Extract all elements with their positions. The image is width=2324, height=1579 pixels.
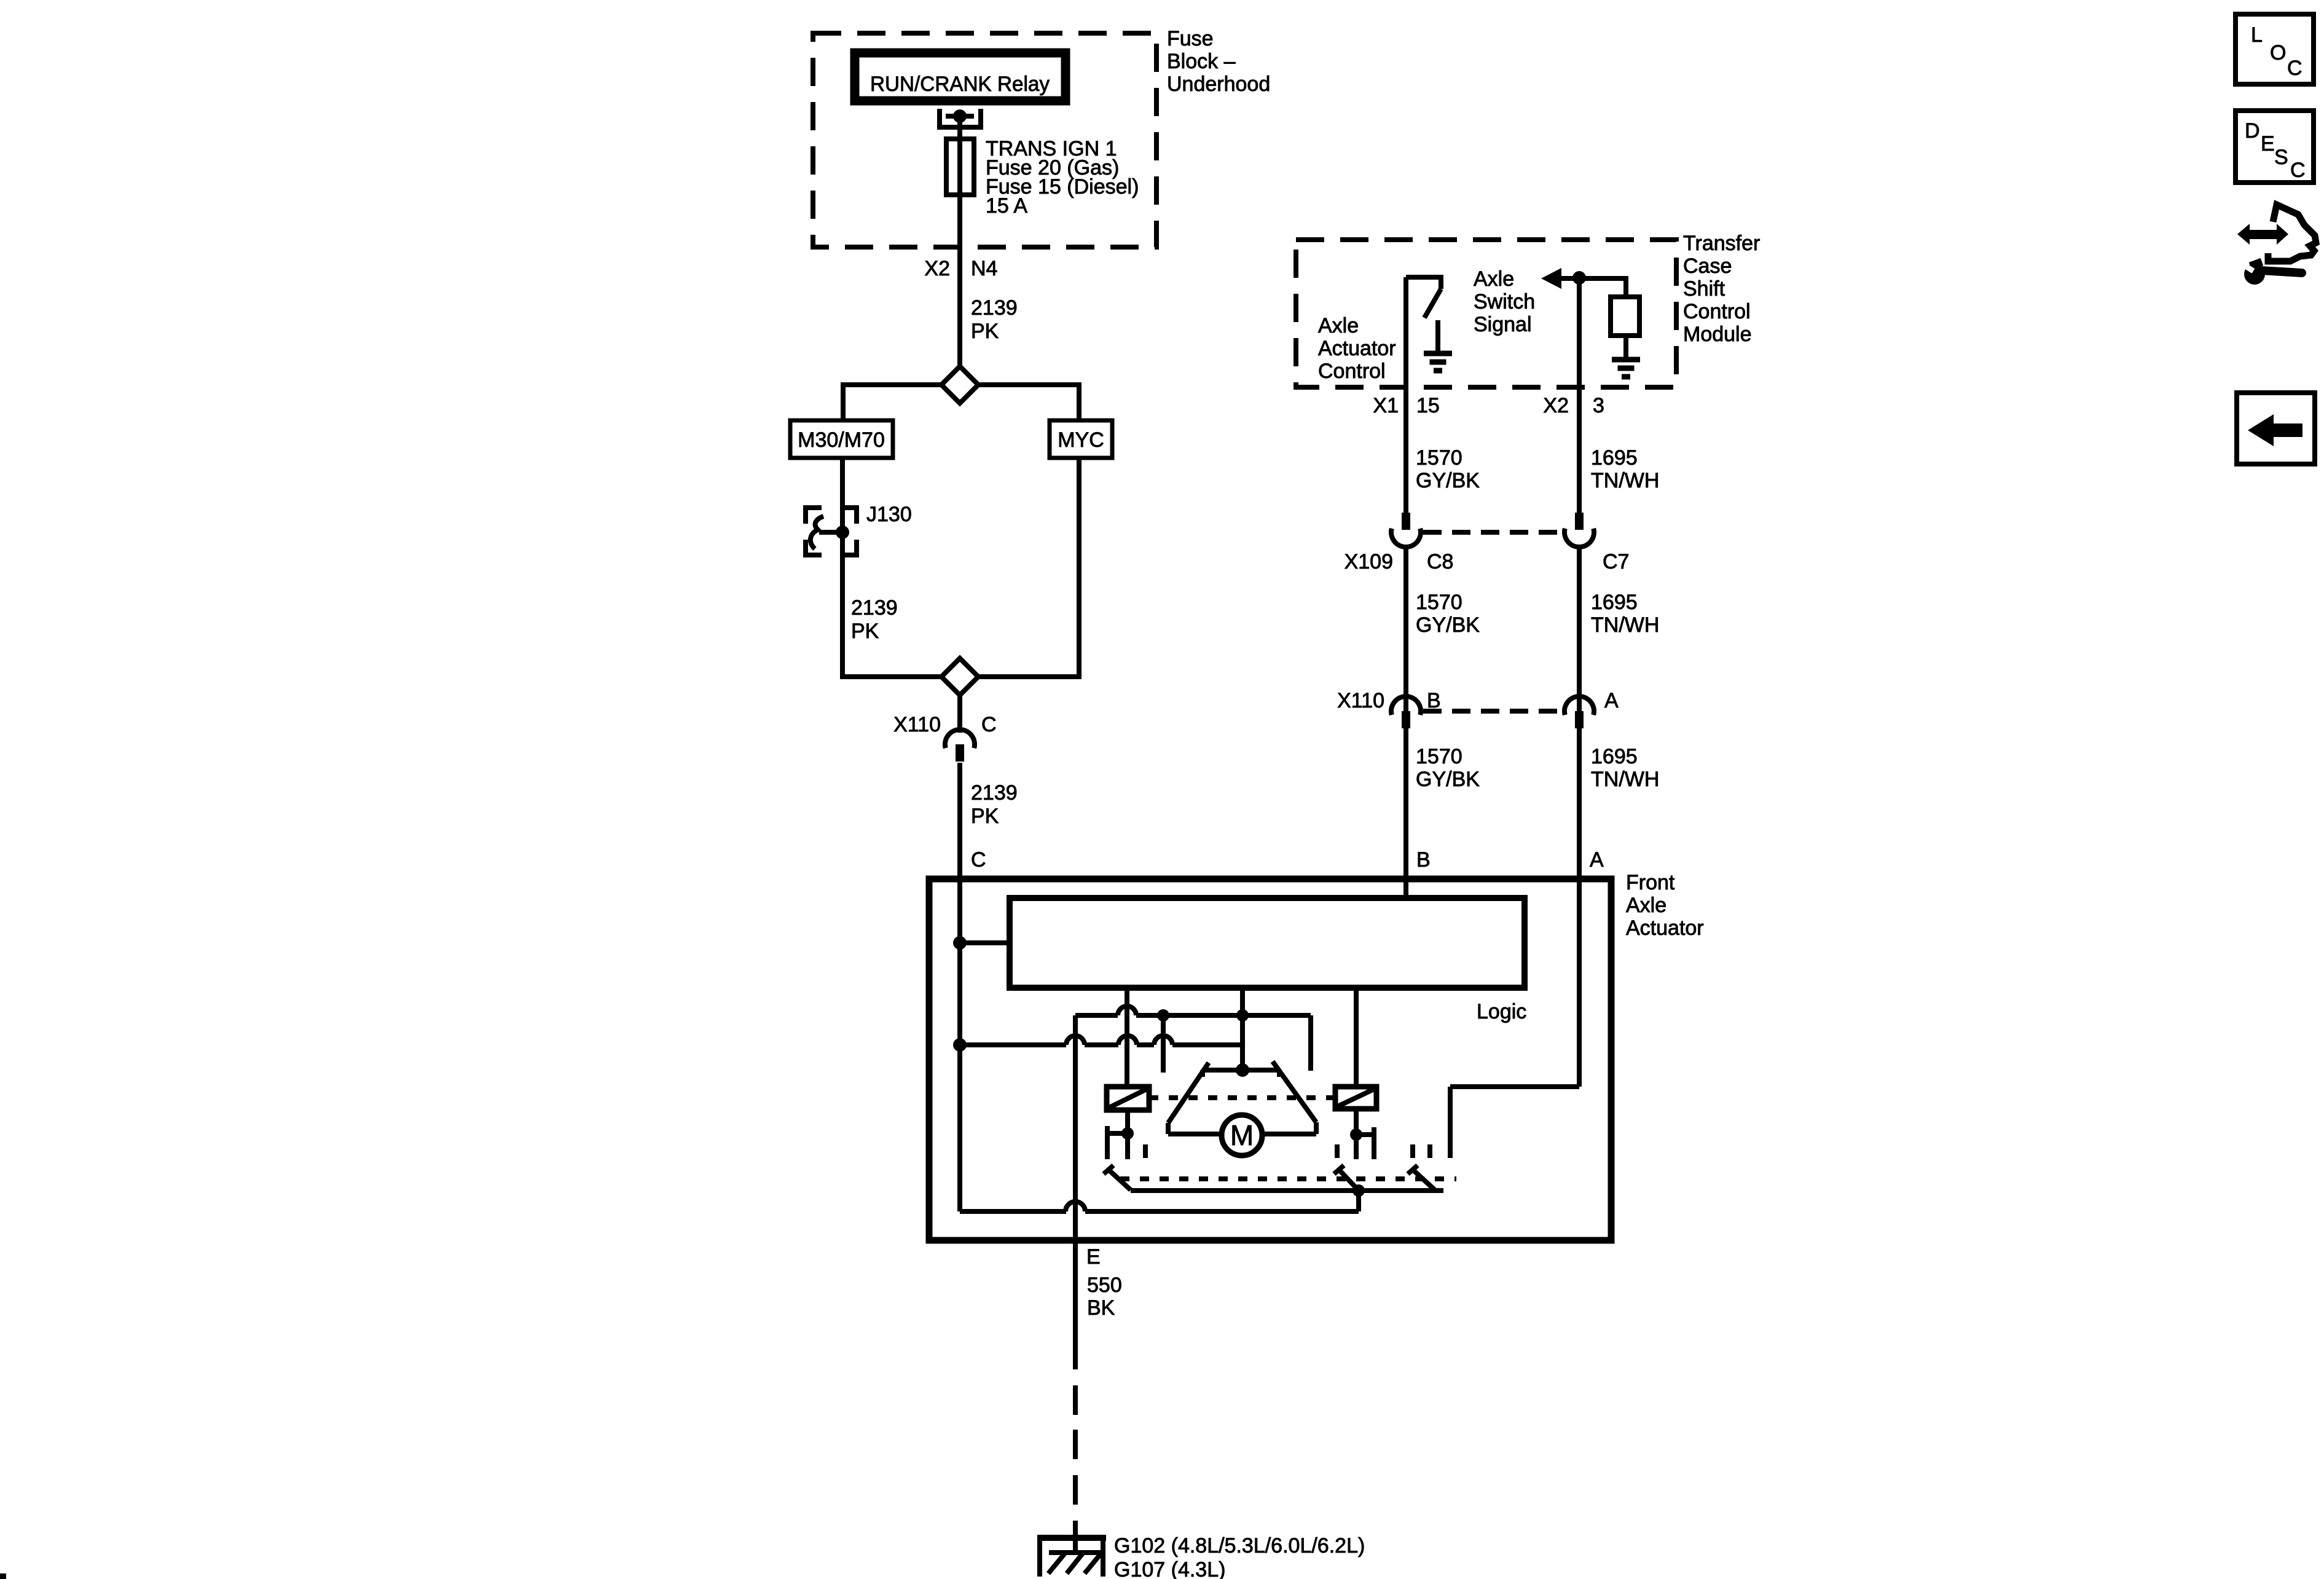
bus1: logic supply rail (corner at E wire) [1075,1006,1311,1015]
svg-text:Logic: Logic [1477,1000,1526,1023]
wire S1 to MYC branch [978,382,1079,420]
relay1 lower contact comb [1107,1110,1145,1159]
label: Fuse Block - Underhood [1167,27,1270,96]
left fixed contact drop from bus1 [1161,1015,1166,1073]
wire pin A branch into box [1450,879,1579,1158]
svg-text:X2: X2 [1543,394,1569,417]
svg-text:TN/WH: TN/WH [1591,613,1659,637]
junction node on signal line [1572,271,1586,285]
wire pin C into box to node [957,879,962,943]
wire node to resistor [1623,278,1628,297]
svg-text:C: C [2290,159,2306,182]
resistor R (pull-up in module) [1611,297,1639,336]
svg-text:L: L [2251,23,2263,47]
connector X109 mating dashed line [1423,530,1562,535]
svg-text:M30/M70: M30/M70 [798,428,885,452]
wire label 2139 PK (lower) [971,781,1018,828]
svg-text:N4: N4 [971,257,997,280]
fuse block dashed outline (Fuse Block - Underhood) [813,33,1156,247]
pin labels X1 | 15 [1373,394,1439,417]
position switch common bar [1131,1188,1443,1193]
splice S2 diamond [941,658,978,695]
wire label 2139 PK (top) [971,296,1018,343]
fuse F: TRANS IGN 1 (symbol) [946,139,974,195]
connector X109 cavity C8 (male tick and female cup) [1391,513,1421,547]
svg-text:Shift: Shift [1683,277,1725,301]
svg-text:X2: X2 [924,257,950,280]
svg-text:Transfer: Transfer [1683,232,1760,255]
svg-text:C: C [2287,57,2302,80]
connector X110 cavity C (female cup and male tick) [945,730,975,762]
wire X2-3 (axle switch signal) [1577,278,1582,513]
icon: DESC box [2236,111,2314,183]
svg-text:C8: C8 [1427,550,1453,573]
motor M (actuator motor) [1222,1115,1262,1156]
relay coil K1 (left) [1107,1087,1149,1110]
svg-text:TN/WH: TN/WH [1591,768,1659,791]
ground G102/G107 symbol [1037,1538,1106,1577]
pin label C (front axle actuator) [971,848,986,872]
svg-text:Front: Front [1626,871,1675,894]
wire X110-A to actuator pin A [1577,728,1582,879]
svg-text:550: 550 [1087,1274,1122,1297]
label: TRANS IGN 1 / Fuse 20 (Gas) / Fuse 15 (Diesel) / 15 A [986,137,1139,218]
wire M30/M70 down to J130 [840,458,845,532]
svg-text:Actuator: Actuator [1626,916,1704,940]
ground contact below switch [1435,320,1440,351]
svg-text:1695: 1695 [1591,745,1638,768]
svg-text:Control: Control [1318,360,1386,383]
switch: axle actuator control driver (blade to ground) [1406,275,1441,318]
svg-text:Axle: Axle [1474,267,1514,291]
node: C feed to internal bus [953,1038,967,1052]
svg-text:Signal: Signal [1474,313,1532,336]
bus1 right end down to right fixed contact [1308,1015,1313,1071]
wire S1 to M30/M70 branch [843,382,941,420]
relay coil K2 (right) [1335,1087,1376,1109]
connector X109 cavity C7 (male tick and female cup) [1564,513,1594,547]
svg-text:TN/WH: TN/WH [1591,469,1659,492]
wire C8 to X110-B [1403,547,1408,731]
svg-text:E: E [2261,132,2275,156]
label J130 [866,503,912,526]
label: Front Axle Actuator [1626,871,1704,940]
connector J130 (in-line harness connector) [806,508,857,555]
svg-text:Switch: Switch [1474,290,1535,313]
relay linkage dashed line [1149,1095,1335,1100]
position switch dashed actuation line [1120,1176,1456,1181]
svg-text:2139: 2139 [971,781,1018,805]
wire label 1570 GY/BK (middle) [1416,591,1480,637]
node: C feed to logic [953,936,1010,950]
svg-text:1570: 1570 [1416,745,1462,768]
wire label 550 BK [1087,1274,1122,1320]
wire C node down to bus3 [957,1045,962,1211]
wire J130 to corner to splice S2 [840,532,941,677]
svg-text:GY/BK: GY/BK [1416,469,1480,492]
labels G102 (4.8L/5.3L/6.0L/6.2L) / G107 (4.3L) [1114,1534,1365,1579]
svg-text:X1: X1 [1373,394,1399,417]
node: motor common at trapezoid top [1236,1063,1249,1077]
position switch contact fingers (right group) [1413,1144,1430,1158]
transfer case shift control module dashed outline [1296,240,1676,387]
svg-text:MYC: MYC [1058,428,1104,452]
wire label 1570 GY/BK (upper) [1416,446,1480,492]
svg-text:Underhood: Underhood [1167,73,1270,96]
svg-text:J130: J130 [866,503,912,526]
svg-text:Actuator: Actuator [1318,337,1396,360]
connector X110 cavity B (female cup and male tick) [1391,696,1421,728]
pin label B [1416,848,1431,872]
svg-text:PK: PK [971,320,999,343]
svg-text:2139: 2139 [851,596,898,620]
svg-text:1570: 1570 [1416,446,1462,470]
svg-text:A: A [1590,848,1604,872]
wire label 1695 TN/WH (middle) [1591,591,1659,637]
position switch blade 2 [1334,1165,1359,1191]
svg-text:PK: PK [971,805,999,828]
svg-text:Fuse: Fuse [1167,27,1214,50]
block M30/M70 [790,420,893,458]
position switch blade 3 [1408,1165,1435,1190]
wire pin B to logic [1403,879,1408,898]
svg-text:O: O [2270,41,2286,65]
relay K: RUN/CRANK Relay box [855,53,1066,101]
svg-text:C: C [971,848,986,872]
svg-text:PK: PK [851,620,879,643]
wire fuse to splice S1 (crosses fuse block edge) [957,195,962,366]
svg-text:RUN/CRANK Relay: RUN/CRANK Relay [870,73,1050,96]
connector X110 cavity A (female cup and male tick) [1564,696,1594,728]
wire MYC down to splice S2 [978,458,1082,677]
svg-text:1695: 1695 [1591,591,1638,614]
icon: back arrow box [2237,393,2315,464]
svg-text:Case: Case [1683,254,1732,278]
wire X110-B to actuator pin B [1403,728,1408,879]
svg-text:15 A: 15 A [986,194,1027,218]
labels X110 | B | A [1337,689,1619,712]
splice S1 diamond [941,366,978,403]
svg-text:G107 (4.3L): G107 (4.3L) [1114,1558,1225,1579]
svg-text:GY/BK: GY/BK [1416,613,1480,637]
vertical logic-to-motor-common [1240,988,1245,1070]
svg-text:1695: 1695 [1591,446,1638,470]
svg-text:GY/BK: GY/BK [1416,768,1480,791]
ground symbol (inside module, left) [1424,353,1452,371]
svg-text:D: D [2245,119,2260,143]
vertical logic-to-relay1 (coil drive left) [1125,988,1129,1087]
connector X110 mating dashed line [1423,709,1562,714]
signal arrow (Axle Switch Signal) [1541,268,1628,289]
wire label 2139 PK (left mid) [851,596,898,643]
svg-text:Control: Control [1683,300,1751,323]
position switch blade 1 [1104,1165,1131,1190]
labels X110 | C [893,713,996,736]
relay2 lower contact comb [1337,1109,1374,1159]
block MYC [1050,420,1112,458]
wire resistor to ground [1623,336,1628,357]
wire label 1695 TN/WH (lower) [1591,745,1659,791]
svg-text:E: E [1086,1245,1101,1269]
label: Logic [1477,1000,1526,1023]
svg-text:B: B [1427,689,1441,712]
svg-text:X109: X109 [1345,550,1393,573]
pin labels X2 | 3 [1543,394,1604,417]
wire label 1695 TN/WH (upper) [1591,446,1659,492]
wire node C down to bus node [957,943,962,1045]
bus2: ignition feed to motor common (with crossover hops) [960,1036,1242,1045]
svg-text:2139: 2139 [971,296,1018,320]
node: bus1 to left fixed contact [1157,1009,1169,1022]
wire label 1570 GY/BK (lower) [1416,745,1480,791]
svg-text:3: 3 [1593,394,1604,417]
wire X110-C to actuator pin C [957,763,962,879]
svg-text:C7: C7 [1603,550,1629,573]
svg-text:1570: 1570 [1416,591,1462,614]
bus3: feed to position switch common (hop over E wire) [960,1191,1359,1211]
wire relay to fuse [957,119,962,139]
label: Axle Actuator Control [1318,314,1396,383]
pin label E [1086,1245,1101,1269]
pin labels X2 | N4 [924,257,997,280]
label: Axle Switch Signal [1474,267,1535,336]
svg-text:C: C [981,713,997,736]
svg-text:15: 15 [1416,394,1440,417]
svg-text:S: S [2274,146,2288,169]
vertical logic-to-relay2 (coil drive right) [1354,988,1359,1087]
logic block [1010,898,1525,988]
wire C7 to X110-A [1577,547,1582,731]
icon: service arrow and wrench [2237,205,2316,285]
front axle actuator box [929,879,1611,1240]
label: Transfer Case Shift Control Module [1683,232,1760,346]
relay output terminal (bracket with pin and junction dot) [940,109,981,127]
wire S2 to connector X110 cavity C [957,695,962,733]
svg-text:Axle: Axle [1318,314,1359,337]
node: bus1 to motor common branch [1236,1009,1249,1022]
motor reversing contact assembly (trapezoid) [1168,1061,1316,1134]
ground symbol (inside module, right) [1612,360,1640,377]
wire X1-15 (axle actuator control) [1403,277,1408,513]
svg-text:Block –: Block – [1167,50,1236,73]
icon: LOC box [2236,14,2314,84]
svg-text:X110: X110 [1337,689,1384,712]
svg-text:X110: X110 [893,713,941,736]
page artifact dot [0,1573,6,1579]
pin label A [1590,848,1604,872]
svg-text:Axle: Axle [1626,894,1666,917]
svg-text:B: B [1416,848,1431,872]
wire E dashed continuation to ground [1073,1385,1078,1552]
svg-text:M: M [1230,1119,1254,1151]
svg-text:Module: Module [1683,323,1752,346]
wire E: bus1 corner down and out of box (550 BK) [1073,1015,1078,1369]
labels X109 | C8 | C7 [1345,550,1630,573]
node: switch common to bus3 [1352,1184,1365,1197]
svg-text:BK: BK [1087,1296,1115,1320]
svg-text:G102 (4.8L/5.3L/6.0L/6.2L): G102 (4.8L/5.3L/6.0L/6.2L) [1114,1534,1365,1557]
svg-text:A: A [1604,689,1619,712]
